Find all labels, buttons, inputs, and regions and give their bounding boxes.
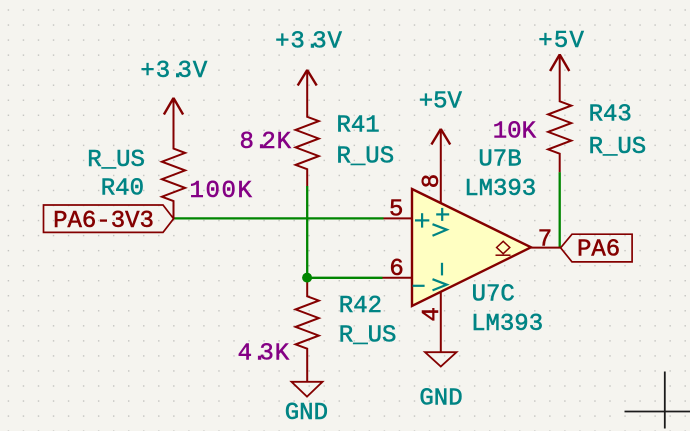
svg-text:R42: R42 xyxy=(339,293,382,320)
svg-text:+3.3V: +3.3V xyxy=(275,28,343,55)
svg-text:7: 7 xyxy=(538,227,552,254)
pin 7 (output) xyxy=(531,247,561,249)
ground (below R42) xyxy=(292,382,323,397)
svg-text:+5V: +5V xyxy=(419,88,463,115)
power +3.3V (R40 top) xyxy=(164,98,183,115)
svg-text:GND: GND xyxy=(285,400,328,427)
svg-text:100K: 100K xyxy=(190,178,254,205)
power +5V (pin 8) xyxy=(431,129,450,145)
global label PA6 xyxy=(561,234,633,262)
svg-text:PA6: PA6 xyxy=(577,237,620,264)
wire R41 bottom to junction xyxy=(306,186,308,278)
pin name - (pin 6) xyxy=(413,285,425,287)
pin name + (pin 5) xyxy=(415,213,429,227)
pin 6 (- input) xyxy=(383,277,413,279)
ground (below pin 4) xyxy=(425,352,457,366)
wire R43 bottom to output node xyxy=(559,172,561,248)
svg-text:R_US: R_US xyxy=(337,144,395,171)
svg-text:GND: GND xyxy=(419,386,462,413)
svg-text:R40: R40 xyxy=(101,175,144,202)
svg-text:+5V: +5V xyxy=(538,28,585,55)
svg-text:R41: R41 xyxy=(337,113,380,140)
pin name V- (pin 4, rotated) xyxy=(433,263,447,291)
sheet corner marker xyxy=(625,372,690,429)
pin name V+ (pin 8, rotated) xyxy=(433,208,450,236)
resistor R40 xyxy=(162,98,185,219)
op-amp U7C body xyxy=(412,189,531,306)
svg-text:10K: 10K xyxy=(493,118,537,145)
pin 5 (+ input) xyxy=(384,217,413,219)
svg-text:+3.3V: +3.3V xyxy=(140,58,208,85)
svg-text:PA6-3V3: PA6-3V3 xyxy=(53,208,154,235)
junction node xyxy=(302,273,312,283)
svg-text:5: 5 xyxy=(389,197,403,224)
power +5V (R43 top) xyxy=(550,55,569,72)
svg-text:6: 6 xyxy=(389,256,403,283)
svg-text:LM393: LM393 xyxy=(464,176,536,203)
svg-text:U7C: U7C xyxy=(472,282,515,309)
svg-text:4.3K: 4.3K xyxy=(238,341,290,368)
svg-text:8: 8 xyxy=(419,174,446,188)
power +3.3V (R41 top) xyxy=(298,70,317,86)
wire PA6-3V3 to pin 5 xyxy=(174,217,384,219)
resistor R43 xyxy=(548,54,571,172)
pin 4 (V- supply) xyxy=(440,292,442,352)
global label PA6-3V3 xyxy=(44,205,174,232)
svg-text:LM393: LM393 xyxy=(471,311,543,338)
svg-text:R43: R43 xyxy=(589,102,632,129)
svg-text:R_US: R_US xyxy=(87,147,145,174)
svg-text:R_US: R_US xyxy=(589,134,647,161)
svg-text:U7B: U7B xyxy=(478,147,521,174)
svg-text:8.2K: 8.2K xyxy=(240,129,292,156)
resistor R41 xyxy=(296,70,319,187)
resistor R42 xyxy=(296,278,319,382)
svg-text:4: 4 xyxy=(419,307,446,321)
open-collector output marker xyxy=(496,241,511,255)
wire junction to pin 6 xyxy=(307,277,382,279)
pin 8 (V+ supply) xyxy=(440,129,442,203)
svg-text:R_US: R_US xyxy=(339,323,397,350)
